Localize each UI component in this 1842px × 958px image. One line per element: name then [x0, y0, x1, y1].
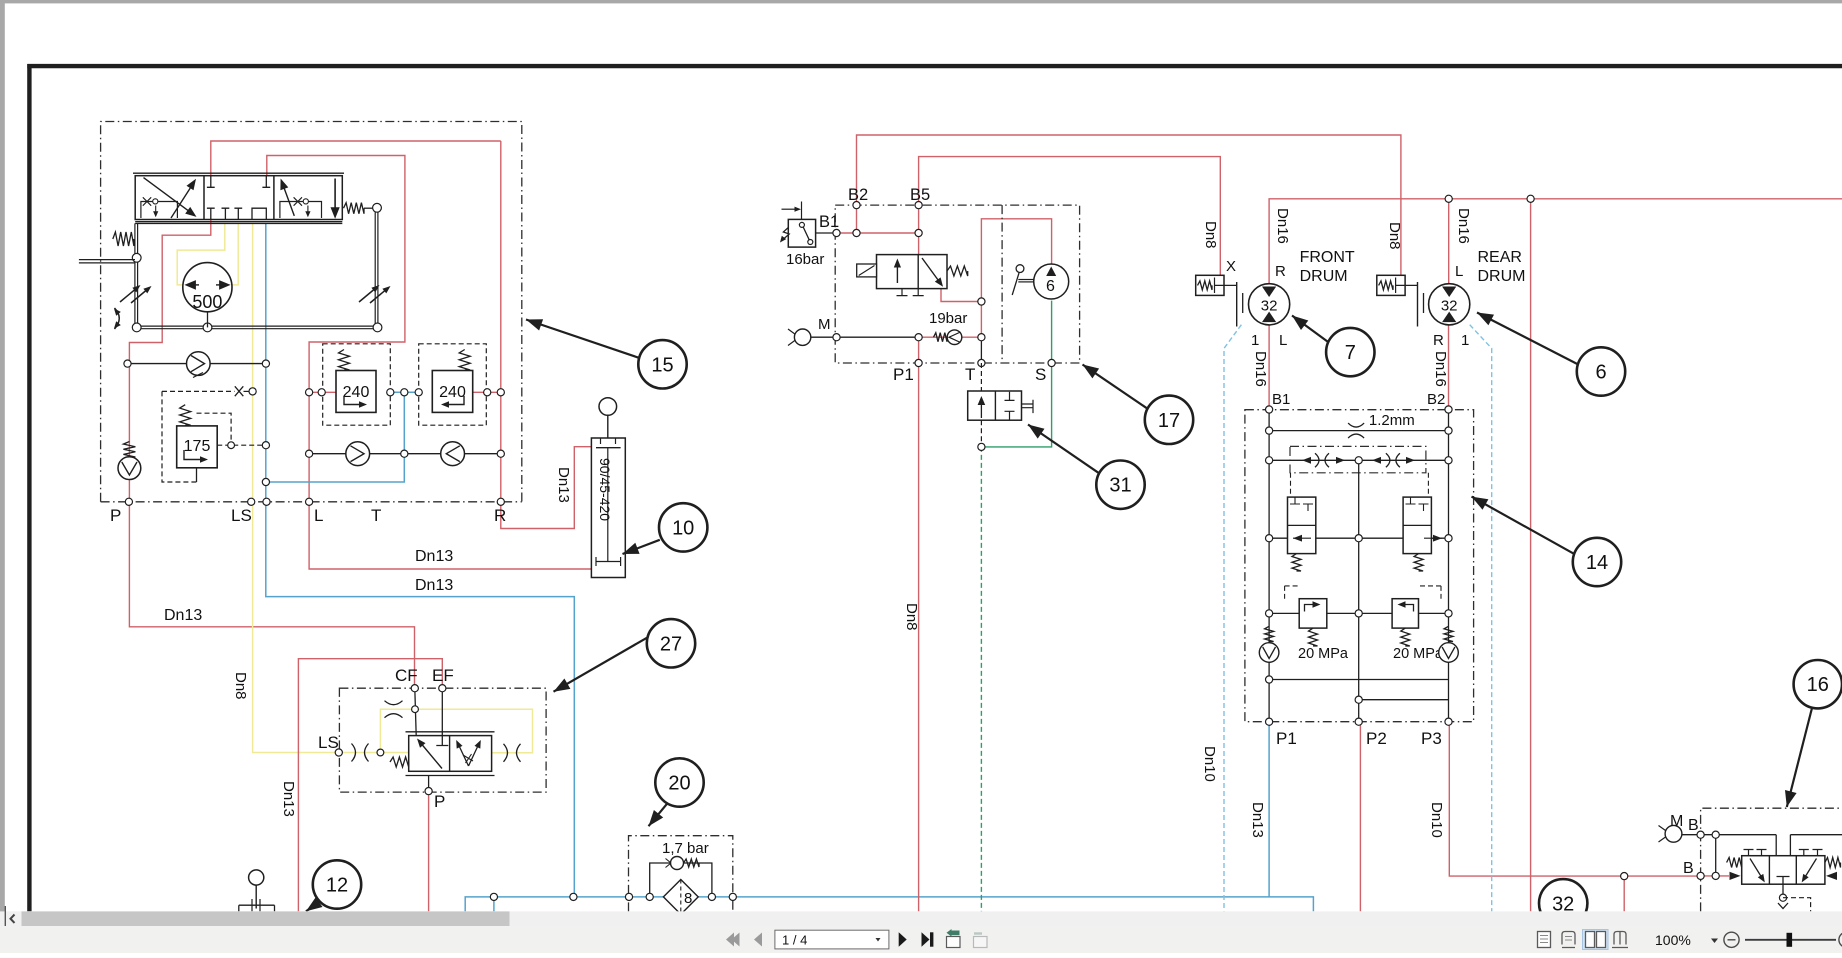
- svg-text:Dn16: Dn16: [1252, 351, 1269, 387]
- wire red drop below B junction: [1623, 876, 1625, 911]
- svg-text:16bar: 16bar: [786, 251, 824, 268]
- filter bypass loop: [650, 863, 712, 897]
- svg-text:32: 32: [1261, 298, 1278, 315]
- wire yellow LS stub to valve 27 spring side: [380, 752, 408, 754]
- svg-text:90/45-420: 90/45-420: [597, 458, 613, 521]
- switch to B1 line: [816, 232, 837, 234]
- svg-text:32: 32: [1441, 298, 1458, 315]
- 240 row nodes: [306, 389, 313, 396]
- valve 27 spring: [390, 757, 409, 767]
- svg-text:Dn16: Dn16: [1274, 208, 1291, 244]
- block 14 shuttle dashed box: [1290, 446, 1426, 472]
- svg-text:P: P: [434, 792, 445, 811]
- scrollbar left button: [5, 911, 22, 926]
- balloon 7: [1292, 316, 1328, 343]
- wire red EF line to element 12: [298, 659, 442, 912]
- MB gauge port symbol: [1665, 825, 1682, 842]
- node on blue T branch: [262, 478, 269, 485]
- balloon 31: [1028, 425, 1099, 474]
- block 14 orifice line 1.2mm: [1269, 430, 1448, 432]
- svg-text:DRUM: DRUM: [1300, 268, 1348, 285]
- svg-text:REAR: REAR: [1478, 249, 1522, 266]
- svg-text:P3: P3: [1421, 729, 1442, 748]
- dashed pilot from T to valve 31: [980, 363, 982, 391]
- towing valve 31 body: [968, 391, 1022, 420]
- valve 27 body: [409, 736, 492, 772]
- valve 27 left cell arrow: [419, 741, 442, 769]
- svg-text:500: 500: [192, 292, 222, 312]
- M line to junction: [837, 336, 919, 338]
- svg-text:19bar: 19bar: [929, 310, 967, 327]
- wire blue tank/T line from valve 15 down: [266, 223, 575, 897]
- wire red rear drum to B2: [1448, 325, 1450, 410]
- balloon 16: [1787, 708, 1812, 807]
- wire red P2 drop: [1359, 723, 1361, 912]
- wire red B2 drop to B1 line: [856, 205, 858, 233]
- svg-text:20 MPa: 20 MPa: [1393, 646, 1444, 662]
- svg-text:B5: B5: [910, 186, 930, 204]
- svg-text:8: 8: [684, 890, 692, 907]
- valve 15 left cell crossed arrows: [144, 178, 194, 215]
- wire yellow LS through orifice to valve 27 pilot loop: [339, 709, 532, 753]
- svg-text:6: 6: [1046, 278, 1055, 295]
- wire red stub into 240 valve row left: [309, 391, 336, 393]
- wire blue branch to 240 shuttle: [266, 392, 405, 482]
- pilot relief valve 175: [162, 390, 235, 392]
- check valve after pump: [128, 363, 266, 365]
- block 14 center vertical: [1358, 460, 1360, 721]
- svg-text:16: 16: [1807, 674, 1829, 696]
- valve 27 orifice left on LS: [352, 744, 356, 762]
- svg-text:1.2mm: 1.2mm: [1369, 412, 1415, 429]
- svg-text:S: S: [1035, 365, 1046, 384]
- toolbar next-page button: [899, 932, 907, 946]
- enclosure box parking valve 16: [1701, 808, 1842, 911]
- valve 16 pilot below: [1782, 884, 1784, 898]
- filter nodes: [625, 893, 632, 900]
- toolbar two-page continuous icon: [1612, 932, 1628, 948]
- pressure switch 16bar: [788, 219, 815, 247]
- svg-text:17: 17: [1158, 410, 1180, 432]
- wire red rear drum L riser: [1448, 199, 1450, 284]
- svg-text:20 MPa: 20 MPa: [1298, 646, 1349, 662]
- svg-text:M: M: [818, 316, 831, 333]
- rotation arc arrow bottom-left: [115, 308, 120, 329]
- wire red stub 240 valve row right: [473, 391, 501, 393]
- valve 27 CF drop line: [415, 688, 416, 735]
- steering cylinder 90/45-420: [591, 438, 625, 578]
- svg-text:B2: B2: [848, 186, 868, 204]
- svg-text:6: 6: [1595, 362, 1606, 384]
- svg-text:LS: LS: [318, 733, 339, 752]
- toolbar page number field: [775, 930, 889, 949]
- valve 16 left cell arrow: [1750, 859, 1763, 880]
- valve 27 orifice right: [504, 744, 508, 762]
- svg-text:Dn8: Dn8: [1202, 221, 1219, 249]
- valve 16 middle cell T: [1777, 877, 1790, 885]
- relief valve 240 right body: [432, 371, 472, 413]
- svg-text:Dn13: Dn13: [1249, 802, 1266, 838]
- balloon 20: [649, 803, 668, 826]
- rear drum motor: [1429, 284, 1470, 325]
- svg-text:P1: P1: [1276, 729, 1297, 748]
- wire blue P1 return from brake block: [1268, 723, 1270, 897]
- wire blue segment between 240 valves: [390, 391, 418, 393]
- svg-text:Dn8: Dn8: [1386, 222, 1403, 250]
- valve 15 right cell pilot sub-box: [280, 202, 322, 219]
- 175 valve spring: [180, 405, 191, 426]
- toolbar zoom in button edge: [1839, 932, 1842, 947]
- hand lever element 12: [249, 870, 264, 885]
- toolbar continuous icon: [1562, 932, 1575, 948]
- relief valve 240 left dashed pilot box: [323, 344, 391, 425]
- toolbar zoom slider: [1745, 939, 1836, 941]
- svg-text:Dn16: Dn16: [1432, 351, 1449, 387]
- relief valve 20MPa right: [1419, 586, 1442, 599]
- block 17 nodes: [853, 202, 860, 209]
- wire red from valve 17 to junction: [941, 289, 981, 302]
- toolbar first-page button: [732, 933, 740, 947]
- valve 15 right cell arrow: [282, 182, 295, 216]
- svg-text:B: B: [1683, 860, 1694, 877]
- 240 right spring: [459, 350, 470, 371]
- valve 31 bottom node: [978, 443, 985, 450]
- wire red P line from valve to port P and to CF: [129, 141, 500, 688]
- block 14 relief row: [1269, 612, 1299, 614]
- wire blue main return line along bottom: [465, 897, 1313, 912]
- svg-text:L: L: [1455, 263, 1463, 280]
- svg-text:R: R: [1433, 332, 1444, 349]
- wire red front drum to B1: [1268, 325, 1270, 410]
- svg-text:1 / 4: 1 / 4: [782, 933, 807, 948]
- pump case corner nodes: [132, 323, 141, 332]
- brake valve left: [1288, 497, 1316, 553]
- svg-text:175: 175: [184, 438, 211, 455]
- wire red B1 horizontal line with B2/B5 taps: [837, 232, 919, 234]
- svg-text:Dn8: Dn8: [232, 672, 249, 700]
- variable displacement arrows right: [359, 287, 377, 302]
- svg-text:B1: B1: [819, 213, 839, 231]
- suction double line into pump case: [79, 259, 135, 261]
- valve 17 tank T marks: [897, 289, 908, 296]
- enclosure box filter 20: [629, 836, 733, 912]
- wire red B feed into valve 16: [1701, 875, 1729, 877]
- svg-text:27: 27: [660, 633, 682, 655]
- rear brake release valve: [1377, 275, 1405, 295]
- 19bar check valve: [934, 333, 948, 342]
- wire red pilot riser to gauge: [981, 219, 1051, 337]
- valve 15 spring right: [344, 203, 365, 214]
- front brake release valve X: [1196, 275, 1224, 295]
- valve 27 P stub: [428, 776, 430, 792]
- relief valve 240 right dashed pilot box: [419, 344, 487, 425]
- enclosure box brake block 14: [1245, 410, 1474, 722]
- port nodes P LS L R of pump unit: [125, 498, 132, 505]
- M gauge port symbol: [794, 329, 810, 345]
- viewer left gray strip: [0, 0, 5, 926]
- svg-text:FRONT: FRONT: [1300, 249, 1355, 266]
- svg-text:DRUM: DRUM: [1478, 268, 1526, 285]
- svg-text:Dn13: Dn13: [555, 467, 572, 503]
- relief valve 240 left body: [336, 371, 376, 413]
- wire yellow pilot to pump left actuator: [177, 223, 225, 285]
- wire red P3 to parking brake valve B port: [1449, 723, 1700, 876]
- wire red drum supply header: [1269, 199, 1842, 284]
- svg-text:Dn13: Dn13: [415, 577, 453, 594]
- balloon 14: [1472, 497, 1575, 554]
- svg-text:M: M: [1670, 813, 1683, 830]
- valve 16 side arrows: [1730, 872, 1741, 880]
- toolbar single page icon: [1538, 932, 1551, 948]
- enclosure box priority valve 27: [339, 688, 546, 792]
- valve 16 port nodes: [1697, 831, 1704, 838]
- valve 17 spring: [947, 266, 968, 276]
- block 14 nodes: [1266, 406, 1273, 413]
- block 14 lower cross lines: [1269, 679, 1448, 681]
- brake valve right: [1403, 497, 1431, 553]
- balloon 15: [526, 320, 639, 358]
- solenoid valve in block 17: [877, 255, 948, 289]
- block 14 shuttle line: [1269, 459, 1448, 461]
- viewer top gray strip: [0, 0, 1842, 3]
- svg-text:12: 12: [326, 875, 348, 897]
- svg-text:1: 1: [1461, 332, 1469, 349]
- toolbar next-view icon greyed: [974, 937, 988, 948]
- wire red L line (valve 15 B-port to 240 block to L and cylinder bottom): [267, 156, 592, 570]
- toolbar previous-page button: [754, 933, 762, 947]
- svg-text:Dn13: Dn13: [164, 607, 202, 624]
- cylinder lever: [599, 398, 617, 416]
- pressure gauge 6: [1034, 264, 1069, 299]
- valve 31 plunger: [1022, 400, 1033, 413]
- pump outlet stem: [207, 312, 209, 328]
- valve 15 middle cell tank T marks: [207, 208, 215, 219]
- enclosure box control block 17: [835, 205, 1079, 363]
- front drum motor: [1249, 284, 1290, 325]
- svg-text:LS: LS: [231, 506, 252, 525]
- toolbar two-page icon highlighted: [1583, 930, 1609, 950]
- svg-text:L: L: [314, 506, 323, 525]
- horizontal scrollbar track: [0, 911, 1842, 926]
- svg-text:31: 31: [1109, 475, 1131, 497]
- svg-text:Dn10: Dn10: [1428, 802, 1445, 838]
- svg-text:R: R: [1275, 263, 1286, 280]
- valve 27 EF drop line: [436, 688, 448, 745]
- svg-text:T: T: [371, 506, 381, 525]
- check valve pair row: [309, 453, 501, 455]
- svg-text:T: T: [965, 365, 975, 384]
- variable displacement arrows left: [120, 287, 138, 302]
- balloon 6: [1477, 313, 1578, 365]
- svg-text:Dn8: Dn8: [903, 603, 920, 631]
- svg-text:B: B: [1688, 817, 1699, 834]
- wire red B5 riser to front brake X valve: [919, 157, 1221, 276]
- svg-text:B1: B1: [1272, 391, 1290, 408]
- block 14 B1 vertical: [1268, 410, 1270, 722]
- svg-text:10: 10: [672, 517, 694, 539]
- svg-text:240: 240: [343, 384, 370, 401]
- header nodes: [1445, 195, 1452, 202]
- svg-text:Dn13: Dn13: [280, 781, 297, 817]
- balloon 27: [554, 637, 648, 691]
- check valve right on P3: [1444, 626, 1453, 641]
- balloon 10: [623, 540, 660, 554]
- balloon 17: [1083, 365, 1148, 409]
- wire blue stub at node near tank: [493, 897, 495, 912]
- page border frame: [27, 64, 1842, 68]
- svg-text:L: L: [1279, 332, 1287, 349]
- scrollbar thumb: [22, 911, 510, 926]
- svg-text:R: R: [494, 506, 506, 525]
- bypass check valve 1,7 bar: [671, 857, 684, 870]
- valve 27 right cell arrows: [458, 743, 469, 767]
- relief valve 20MPa left: [1285, 586, 1300, 599]
- wire red B5 into solenoid valve 17: [918, 205, 920, 255]
- main pump circle 500: [183, 263, 232, 312]
- svg-text:20: 20: [668, 773, 690, 795]
- valve 27 nodes: [411, 685, 418, 692]
- svg-text:100%: 100%: [1655, 932, 1691, 948]
- toolbar zoom out button: [1724, 932, 1739, 947]
- svg-text:Dn16: Dn16: [1455, 208, 1472, 244]
- svg-text:Dn10: Dn10: [1201, 746, 1218, 782]
- wire green gauge line from gauge 6 to valve 31: [981, 301, 1051, 447]
- wire red R line from valve top to port R and cylinder: [501, 141, 592, 529]
- svg-text:1,7 bar: 1,7 bar: [662, 840, 709, 857]
- toolbar background: [0, 926, 1842, 953]
- solenoid coil box: [857, 264, 877, 277]
- svg-text:EF: EF: [432, 666, 454, 685]
- valve 15 middle cell top pilot marks: [207, 176, 215, 188]
- 175 pilot nodes: [228, 442, 235, 449]
- valve 16 body: [1742, 856, 1825, 885]
- wire dashed blue case drain front drum: [1224, 325, 1241, 912]
- balloon 12: [306, 902, 320, 912]
- directional valve block of pump unit 15: [135, 176, 342, 220]
- block 14 brake line: [1269, 537, 1287, 539]
- svg-text:B2: B2: [1427, 391, 1445, 408]
- wire green dashed drain down the page: [980, 447, 982, 912]
- balloon 32: [1539, 879, 1587, 927]
- wire yellow LS line down to priority valve 27: [253, 223, 340, 752]
- svg-text:14: 14: [1586, 552, 1608, 574]
- junction to T port: [980, 337, 982, 363]
- wire red Dn8 long drop from P1: [918, 337, 920, 911]
- svg-text:P: P: [110, 506, 121, 525]
- block 14 B2 vertical: [1448, 410, 1450, 722]
- valve 16 right cell arrow: [1804, 859, 1817, 880]
- relief valve on P line: [123, 442, 135, 458]
- svg-text:P1: P1: [893, 365, 914, 384]
- wire red P drop from priority valve 27: [428, 791, 430, 911]
- toolbar last-page button: [922, 932, 930, 946]
- pump case outline: [134, 223, 136, 327]
- spring top-left of pump case: [113, 232, 134, 246]
- MB line: [1682, 834, 1776, 836]
- wire red B2 to rear brake X valve: [857, 135, 1401, 275]
- svg-text:7: 7: [1345, 342, 1356, 364]
- valve 15 left cell pilot sub-box: [141, 202, 178, 219]
- check valve left on P1: [1265, 626, 1274, 641]
- 175 valve body: [177, 426, 218, 468]
- valve 15 middle cell port box: [252, 208, 266, 219]
- enclosure box of pump unit 15: [101, 122, 522, 502]
- valve 16 top T marks: [1744, 850, 1754, 856]
- svg-text:P2: P2: [1366, 729, 1387, 748]
- svg-text:CF: CF: [395, 666, 418, 685]
- svg-text:1: 1: [1251, 332, 1259, 349]
- wire yellow pilot to pump right actuator: [232, 223, 238, 285]
- valve 15 right edge down arrow: [334, 179, 336, 208]
- valve 16 springs: [1727, 858, 1742, 868]
- wire red through 19bar check: [919, 336, 982, 338]
- restrictor on 175 pilot: [235, 386, 244, 396]
- wire red riser to parking valve 16 header: [1530, 199, 1532, 912]
- filter element diamond: [663, 880, 698, 915]
- svg-text:15: 15: [651, 354, 673, 376]
- toolbar previous-view icon: [947, 937, 961, 948]
- 240 left spring: [339, 350, 350, 371]
- valve 27 orifice top on bypass: [385, 701, 403, 705]
- svg-text:X: X: [1226, 258, 1236, 275]
- svg-text:Dn13: Dn13: [415, 548, 453, 565]
- svg-text:240: 240: [439, 384, 466, 401]
- wire dashed blue case drain rear drum: [1470, 325, 1492, 912]
